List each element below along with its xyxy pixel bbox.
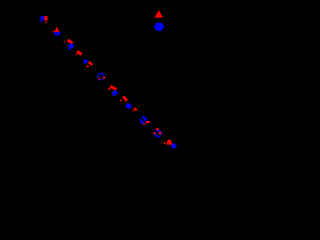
- legend marker: blue hexagon: [154, 23, 164, 31]
- cluster 10: [164, 139, 177, 149]
- cluster 3: [64, 40, 75, 50]
- cluster 9: [153, 128, 161, 137]
- legend marker: red triangle: [155, 10, 164, 17]
- cluster 2: [52, 27, 61, 36]
- cluster 5 (dim ring): [98, 73, 105, 79]
- cluster 8: [140, 116, 150, 124]
- cluster 7: [120, 96, 137, 111]
- cluster 4: [76, 51, 93, 67]
- cluster 1: [40, 15, 48, 22]
- cluster 6: [108, 86, 118, 96]
